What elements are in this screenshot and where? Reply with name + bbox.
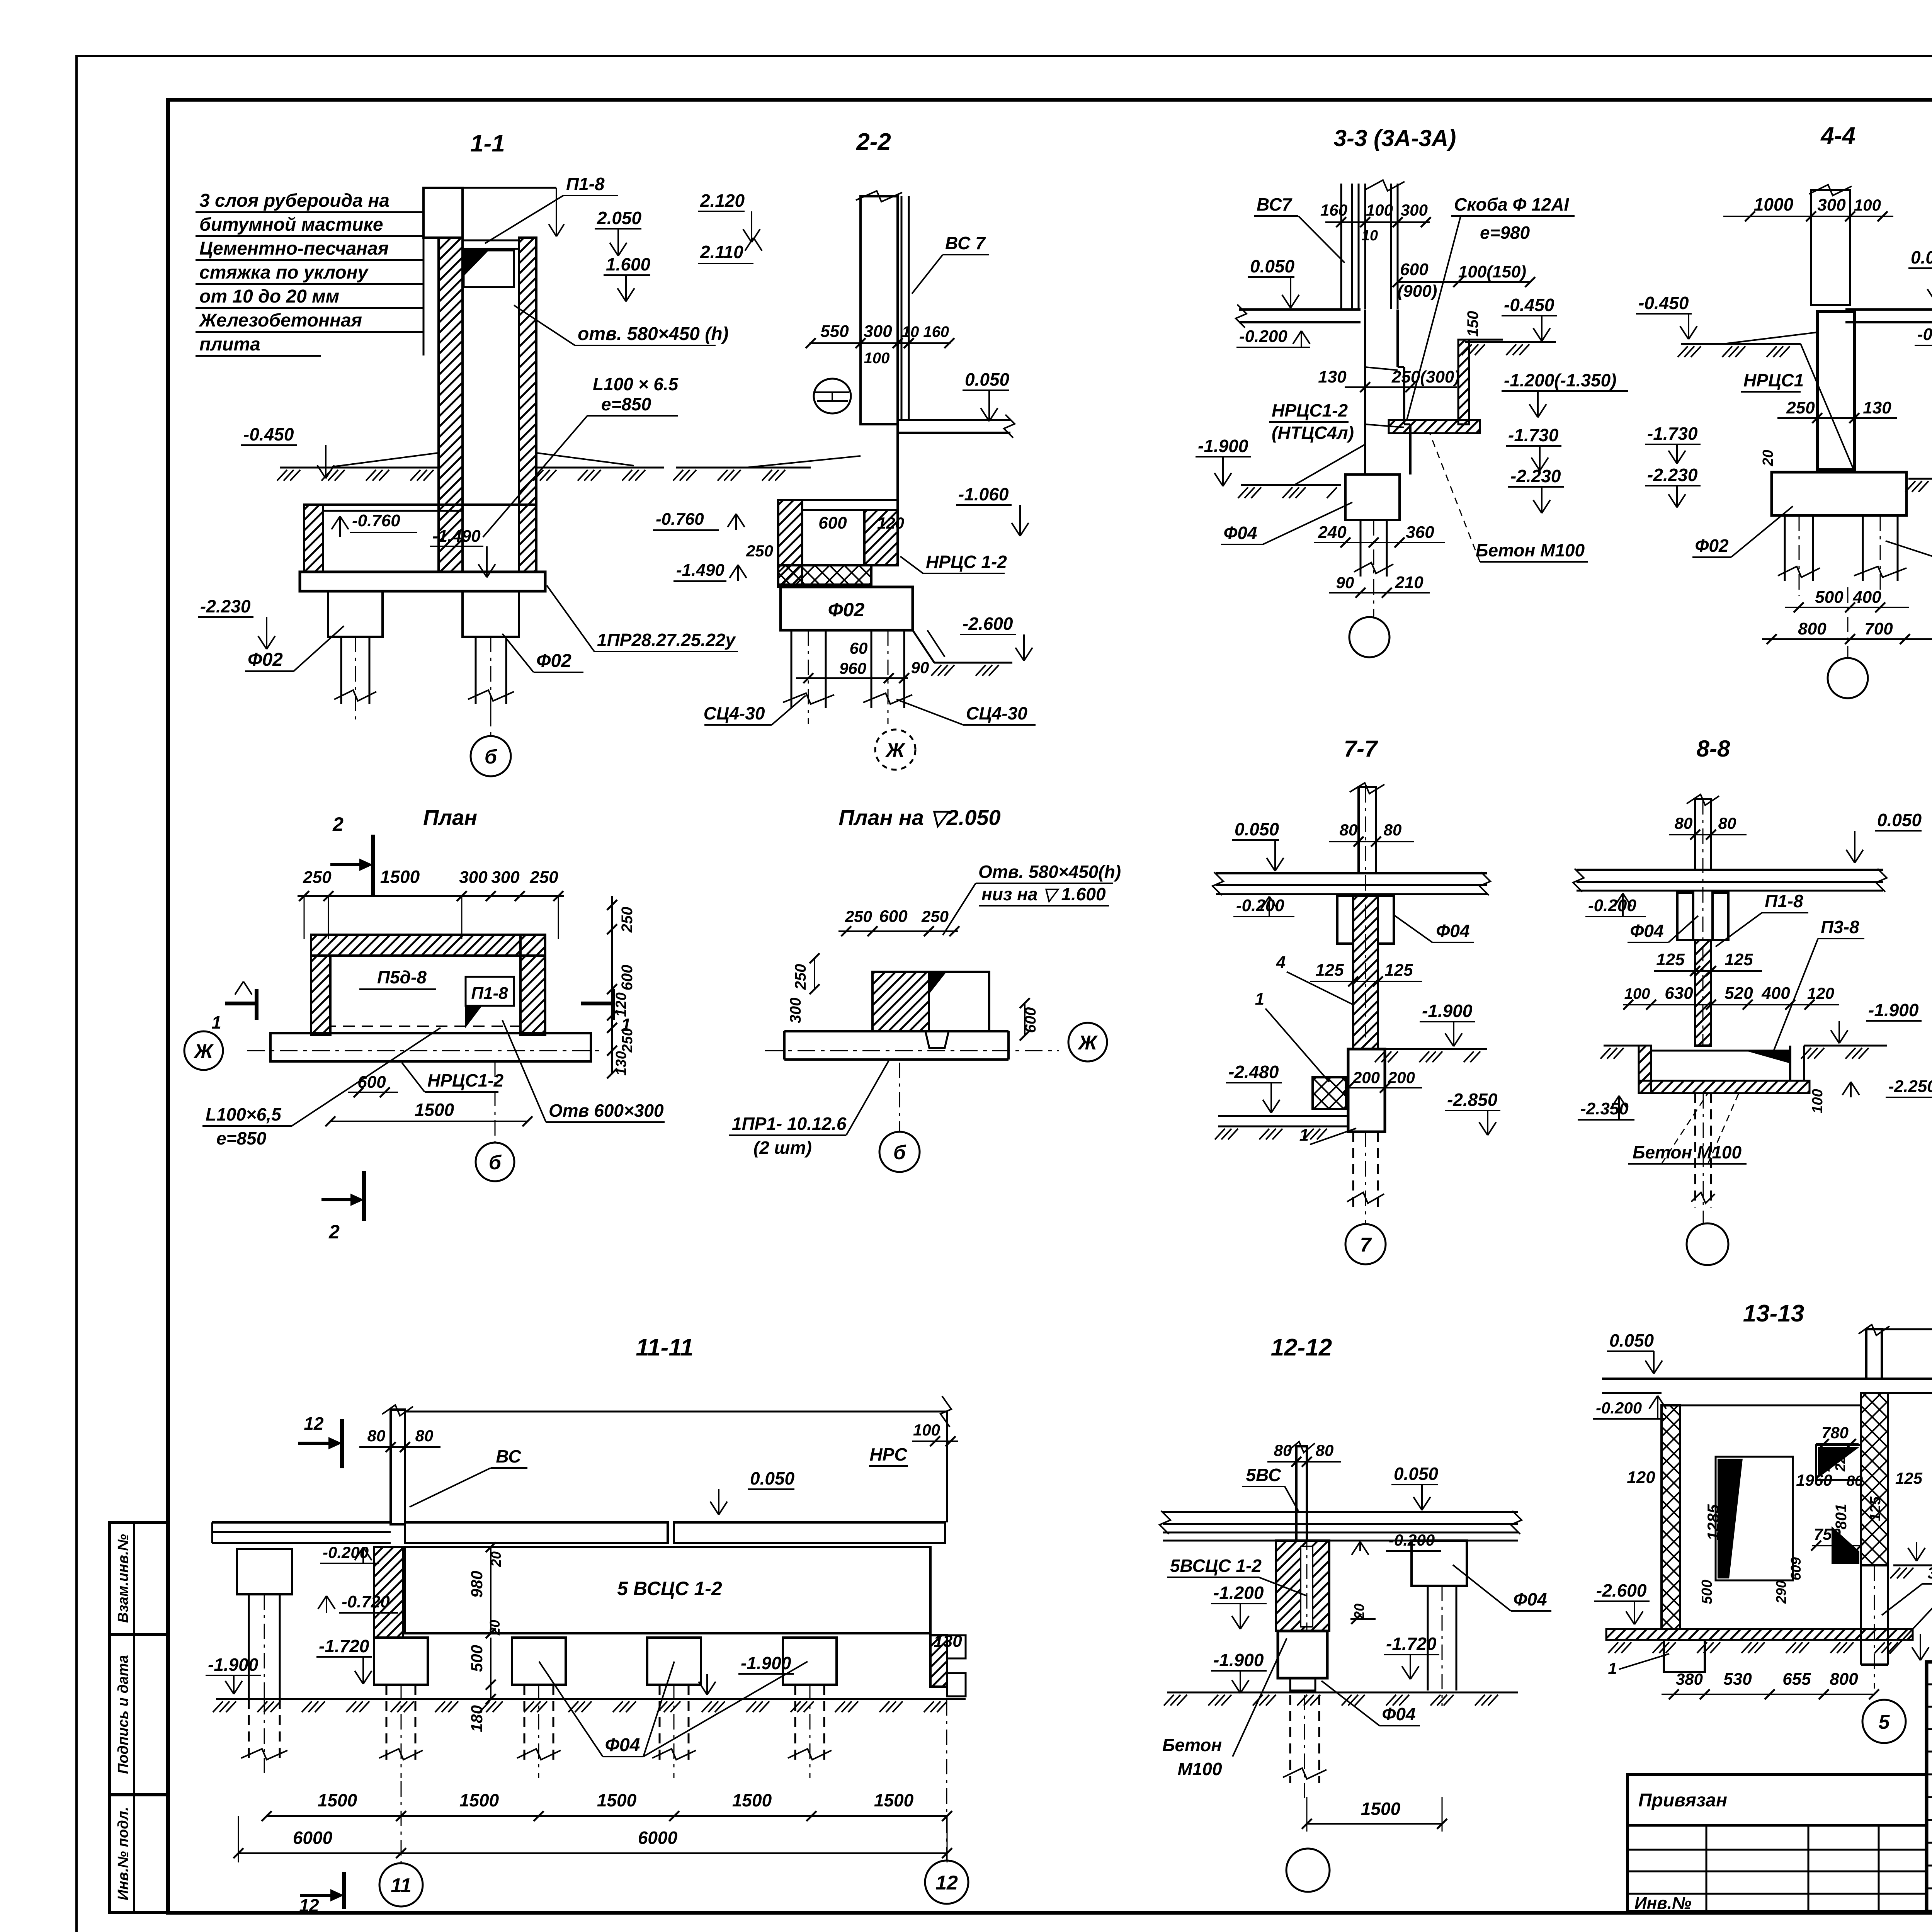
svg-text:100: 100 — [1854, 196, 1881, 214]
svg-text:0.050: 0.050 — [1609, 1330, 1654, 1350]
svg-text:Скоба Ф 12АI: Скоба Ф 12АI — [1454, 194, 1570, 214]
svg-text:250: 250 — [921, 907, 949, 925]
svg-text:битумной мастике: битумной мастике — [199, 214, 383, 235]
svg-text:5: 5 — [1879, 1711, 1890, 1733]
svg-text:0.050: 0.050 — [1250, 256, 1295, 276]
svg-text:90: 90 — [1336, 573, 1354, 592]
svg-text:550: 550 — [820, 322, 849, 341]
svg-text:750: 750 — [1814, 1525, 1841, 1543]
svg-text:отв. 580×450 (h): отв. 580×450 (h) — [578, 324, 729, 344]
svg-text:800: 800 — [1830, 1670, 1858, 1689]
svg-text:125: 125 — [1384, 961, 1413, 980]
svg-text:100: 100 — [864, 350, 890, 367]
svg-text:125: 125 — [1656, 950, 1685, 969]
svg-text:1ПР1- 10.12.6: 1ПР1- 10.12.6 — [732, 1114, 847, 1134]
svg-text:130: 130 — [1863, 398, 1891, 417]
svg-text:-2.230: -2.230 — [1510, 466, 1561, 486]
svg-text:800: 800 — [1798, 619, 1827, 638]
svg-text:11-11: 11-11 — [636, 1334, 693, 1361]
svg-text:120: 120 — [1807, 984, 1834, 1002]
svg-text:780: 780 — [1821, 1423, 1849, 1442]
svg-text:100(150): 100(150) — [1458, 262, 1526, 281]
svg-text:(900): (900) — [1398, 282, 1437, 301]
svg-text:Ж: Ж — [193, 1040, 214, 1063]
svg-text:Железобетонная: Железобетонная — [198, 310, 362, 331]
svg-text:Ф04: Ф04 — [1436, 921, 1469, 941]
svg-text:1500: 1500 — [380, 867, 420, 887]
svg-text:180: 180 — [468, 1705, 486, 1732]
svg-text:5 ВСЦС 1-2: 5 ВСЦС 1-2 — [617, 1578, 722, 1599]
svg-text:0.050: 0.050 — [750, 1468, 795, 1488]
svg-text:-2.230: -2.230 — [200, 596, 251, 616]
svg-text:Инв.№ подл.: Инв.№ подл. — [115, 1807, 131, 1900]
svg-text:П3-8: П3-8 — [1821, 917, 1859, 937]
svg-text:1: 1 — [1608, 1659, 1617, 1677]
svg-text:500: 500 — [468, 1645, 486, 1672]
svg-text:Подпись и дата: Подпись и дата — [115, 1655, 131, 1774]
svg-text:130: 130 — [613, 1051, 629, 1075]
svg-text:250: 250 — [1786, 398, 1815, 417]
svg-text:-1.490: -1.490 — [676, 561, 724, 580]
svg-text:80: 80 — [1340, 821, 1358, 839]
svg-text:1-1: 1-1 — [470, 130, 505, 157]
svg-text:250: 250 — [619, 1028, 636, 1053]
svg-text:3: 3 — [1927, 1564, 1932, 1582]
svg-text:1285: 1285 — [1704, 1504, 1722, 1541]
svg-text:ВС: ВС — [496, 1446, 521, 1466]
svg-text:6000: 6000 — [638, 1828, 678, 1848]
svg-text:б: б — [485, 746, 498, 768]
svg-text:250: 250 — [529, 868, 558, 887]
svg-text:700: 700 — [1864, 619, 1893, 638]
svg-text:-0.720: -0.720 — [342, 1592, 390, 1611]
svg-text:400: 400 — [1852, 588, 1881, 607]
svg-text:-0.200: -0.200 — [1917, 325, 1932, 344]
svg-text:Ф04: Ф04 — [605, 1735, 640, 1755]
svg-text:1960: 1960 — [1796, 1471, 1832, 1489]
svg-text:-1.720: -1.720 — [319, 1636, 369, 1656]
svg-text:СЦ4-30: СЦ4-30 — [704, 703, 765, 723]
svg-text:-1.200: -1.200 — [1213, 1583, 1264, 1603]
svg-text:0.050: 0.050 — [1235, 819, 1279, 839]
svg-text:2.110: 2.110 — [700, 242, 743, 262]
svg-text:П1-8: П1-8 — [566, 174, 605, 194]
svg-text:5ВС: 5ВС — [1246, 1465, 1282, 1485]
svg-text:План: План — [423, 805, 477, 830]
svg-text:Ф04: Ф04 — [1630, 921, 1663, 941]
svg-text:80: 80 — [1675, 814, 1693, 832]
svg-text:-2.480: -2.480 — [1228, 1062, 1279, 1082]
svg-text:0.050: 0.050 — [965, 369, 1010, 389]
svg-text:4-4: 4-4 — [1820, 122, 1855, 149]
svg-text:10 160: 10 160 — [902, 323, 949, 340]
svg-text:300: 300 — [1401, 201, 1428, 219]
svg-text:600: 600 — [619, 965, 636, 991]
svg-text:200: 200 — [1388, 1068, 1415, 1087]
svg-text:-2.250: -2.250 — [1888, 1077, 1932, 1096]
svg-text:240: 240 — [1318, 523, 1347, 542]
svg-text:Ф04: Ф04 — [1223, 523, 1257, 543]
svg-text:П5д-8: П5д-8 — [377, 967, 427, 987]
svg-text:200: 200 — [1352, 1068, 1380, 1087]
svg-text:11: 11 — [391, 1874, 412, 1897]
svg-text:1000: 1000 — [1754, 194, 1794, 214]
svg-text:1500: 1500 — [597, 1790, 637, 1810]
svg-text:250: 250 — [845, 907, 872, 925]
svg-text:-1.730: -1.730 — [1647, 423, 1698, 444]
svg-text:0.050: 0.050 — [1911, 247, 1932, 267]
svg-text:250: 250 — [303, 868, 332, 887]
svg-text:Отв. 580×450(h): Отв. 580×450(h) — [978, 862, 1121, 882]
svg-text:Ф02: Ф02 — [828, 599, 865, 621]
svg-text:-2.600: -2.600 — [1596, 1580, 1647, 1600]
svg-text:1500: 1500 — [415, 1100, 454, 1120]
svg-text:80: 80 — [1847, 1473, 1863, 1489]
svg-text:2: 2 — [328, 1221, 340, 1243]
svg-text:250(300): 250(300) — [1391, 367, 1460, 386]
svg-text:125: 125 — [1315, 961, 1344, 980]
svg-text:220: 220 — [1832, 1448, 1848, 1472]
svg-text:90: 90 — [911, 658, 929, 677]
svg-text:НРЦС1-2: НРЦС1-2 — [427, 1070, 504, 1090]
svg-text:530: 530 — [1723, 1670, 1752, 1689]
svg-text:плита: плита — [199, 334, 260, 355]
svg-text:П1-8: П1-8 — [471, 984, 508, 1003]
svg-text:Бетон: Бетон — [1162, 1735, 1222, 1755]
svg-text:Ж: Ж — [885, 739, 906, 762]
svg-text:М100: М100 — [1177, 1759, 1222, 1779]
svg-text:80: 80 — [1316, 1441, 1334, 1459]
svg-text:от 10 до 20 мм: от 10 до 20 мм — [199, 286, 339, 307]
svg-text:-0.450: -0.450 — [243, 424, 294, 444]
svg-text:-1.900: -1.900 — [208, 1655, 259, 1675]
svg-text:-0.450: -0.450 — [1638, 293, 1689, 313]
svg-text:20: 20 — [1760, 450, 1776, 466]
svg-text:10: 10 — [1362, 228, 1378, 244]
svg-text:e=980: e=980 — [1480, 223, 1530, 243]
svg-text:300: 300 — [459, 868, 488, 887]
svg-text:-2.350: -2.350 — [1580, 1099, 1629, 1118]
svg-text:-1.900: -1.900 — [741, 1653, 791, 1673]
svg-text:1500: 1500 — [1361, 1799, 1401, 1819]
svg-text:150: 150 — [1464, 311, 1481, 337]
svg-text:-1.490: -1.490 — [432, 527, 481, 546]
svg-text:125: 125 — [1867, 1496, 1884, 1521]
svg-text:160: 160 — [1320, 201, 1347, 219]
svg-text:1: 1 — [211, 1012, 221, 1032]
svg-text:80: 80 — [1384, 821, 1402, 839]
svg-text:0.050: 0.050 — [1877, 810, 1922, 830]
svg-text:-0.200: -0.200 — [323, 1543, 369, 1561]
svg-text:300: 300 — [864, 322, 892, 341]
svg-text:980: 980 — [468, 1571, 486, 1598]
svg-text:609: 609 — [1788, 1557, 1804, 1580]
svg-text:120: 120 — [1627, 1468, 1655, 1487]
svg-text:-0.200: -0.200 — [1596, 1399, 1642, 1417]
svg-text:630: 630 — [1665, 984, 1693, 1003]
svg-text:1500: 1500 — [459, 1790, 499, 1810]
svg-text:100: 100 — [913, 1421, 940, 1439]
svg-text:-1.900: -1.900 — [1868, 1000, 1919, 1020]
svg-text:-1.900: -1.900 — [1198, 436, 1248, 456]
svg-text:80: 80 — [1718, 814, 1736, 832]
svg-text:б: б — [489, 1151, 502, 1174]
svg-text:125: 125 — [1725, 950, 1753, 969]
svg-text:6000: 6000 — [293, 1828, 333, 1848]
svg-text:Ф04: Ф04 — [1382, 1704, 1415, 1724]
svg-text:-2.600: -2.600 — [963, 614, 1013, 634]
svg-text:1500: 1500 — [318, 1790, 357, 1810]
svg-text:120: 120 — [877, 514, 904, 532]
svg-text:400: 400 — [1761, 984, 1790, 1003]
svg-text:1.600: 1.600 — [606, 254, 651, 274]
svg-text:Бетон М100: Бетон М100 — [1633, 1142, 1742, 1162]
svg-text:(НТЦС4л): (НТЦС4л) — [1272, 423, 1354, 443]
svg-text:1: 1 — [1255, 990, 1264, 1009]
svg-text:250: 250 — [746, 542, 773, 560]
svg-text:-0.450: -0.450 — [1504, 295, 1554, 315]
svg-text:e=850: e=850 — [601, 394, 651, 414]
svg-text:4: 4 — [1276, 953, 1286, 972]
svg-text:20: 20 — [487, 1620, 503, 1636]
svg-text:СЦ4-30: СЦ4-30 — [966, 703, 1027, 723]
svg-text:250: 250 — [619, 907, 636, 933]
svg-text:НРС: НРС — [869, 1444, 907, 1464]
svg-text:1500: 1500 — [874, 1790, 914, 1810]
svg-text:Ф02: Ф02 — [1695, 536, 1728, 556]
svg-text:НРЦС1-2: НРЦС1-2 — [1272, 400, 1348, 420]
svg-text:80: 80 — [367, 1427, 386, 1445]
svg-text:План на ▽2.050: План на ▽2.050 — [838, 805, 1000, 830]
svg-text:Ф02: Ф02 — [248, 650, 283, 670]
svg-text:Ф02: Ф02 — [536, 651, 571, 671]
svg-text:Привязан: Привязан — [1638, 1790, 1727, 1811]
svg-text:250: 250 — [792, 964, 809, 990]
svg-text:L100 × 6.5: L100 × 6.5 — [593, 374, 679, 394]
svg-text:Бетон М100: Бетон М100 — [1476, 540, 1585, 560]
svg-text:Цементно-песчаная: Цементно-песчаная — [199, 238, 389, 259]
svg-text:125: 125 — [1895, 1469, 1923, 1487]
svg-text:7-7: 7-7 — [1344, 736, 1378, 762]
svg-text:e=850: e=850 — [216, 1128, 267, 1148]
svg-text:655: 655 — [1782, 1670, 1811, 1689]
svg-text:100: 100 — [1810, 1089, 1826, 1113]
svg-text:НРЦС1: НРЦС1 — [1743, 370, 1804, 390]
svg-text:низ на ▽ 1.600: низ на ▽ 1.600 — [981, 884, 1106, 904]
svg-text:-1.900: -1.900 — [1422, 1001, 1473, 1021]
svg-text:12-12: 12-12 — [1271, 1334, 1332, 1361]
svg-text:Взам.инв.№: Взам.инв.№ — [115, 1534, 131, 1623]
svg-text:100: 100 — [1624, 985, 1650, 1002]
svg-text:130: 130 — [1318, 367, 1347, 386]
svg-text:б: б — [893, 1141, 906, 1164]
svg-text:600: 600 — [1400, 260, 1429, 279]
svg-text:-0.760: -0.760 — [352, 511, 400, 530]
svg-text:3-3 (3А-3А): 3-3 (3А-3А) — [1334, 125, 1456, 151]
svg-text:Ж: Ж — [1077, 1032, 1098, 1054]
svg-text:-1.200(-1.350): -1.200(-1.350) — [1504, 370, 1617, 390]
svg-text:1ПР28.27.25.22у: 1ПР28.27.25.22у — [597, 630, 736, 650]
svg-text:1: 1 — [1299, 1126, 1309, 1145]
svg-text:-2.850: -2.850 — [1447, 1090, 1498, 1110]
svg-text:-0.200: -0.200 — [1588, 896, 1636, 915]
svg-text:П1-8: П1-8 — [1765, 891, 1803, 911]
svg-text:Отв 600×300: Отв 600×300 — [549, 1100, 664, 1121]
svg-text:-1.720: -1.720 — [1386, 1634, 1437, 1654]
svg-text:Инв.№: Инв.№ — [1634, 1894, 1691, 1913]
svg-text:80: 80 — [415, 1427, 434, 1445]
svg-text:290: 290 — [1773, 1580, 1789, 1604]
svg-text:960: 960 — [839, 659, 866, 677]
svg-text:ВС7: ВС7 — [1257, 194, 1293, 214]
svg-text:360: 360 — [1406, 523, 1434, 542]
svg-text:-0.200: -0.200 — [1236, 896, 1284, 915]
svg-text:100: 100 — [1366, 201, 1393, 219]
svg-text:L100×6,5: L100×6,5 — [206, 1104, 282, 1124]
svg-text:120: 120 — [613, 992, 629, 1017]
svg-text:300: 300 — [787, 998, 804, 1024]
svg-text:2.120: 2.120 — [700, 190, 745, 211]
svg-text:600: 600 — [879, 907, 908, 926]
svg-text:Ф04: Ф04 — [1513, 1589, 1547, 1609]
svg-text:12: 12 — [304, 1413, 324, 1434]
svg-text:300: 300 — [491, 868, 520, 887]
svg-text:-2.230: -2.230 — [1647, 465, 1698, 485]
svg-text:520: 520 — [1725, 984, 1753, 1003]
svg-text:500: 500 — [1699, 1580, 1715, 1604]
svg-text:600: 600 — [818, 514, 847, 532]
svg-text:300: 300 — [1817, 196, 1846, 214]
svg-text:80: 80 — [1274, 1441, 1292, 1459]
svg-text:(2 шт): (2 шт) — [753, 1138, 812, 1158]
svg-text:8-8: 8-8 — [1697, 736, 1730, 762]
svg-text:1500: 1500 — [732, 1790, 772, 1810]
svg-text:-1.060: -1.060 — [958, 484, 1009, 504]
svg-text:2-2: 2-2 — [856, 129, 891, 155]
svg-text:5ВСЦС 1-2: 5ВСЦС 1-2 — [1170, 1556, 1262, 1576]
svg-text:500: 500 — [1815, 588, 1844, 607]
svg-text:-0.760: -0.760 — [656, 510, 704, 529]
svg-text:13-13: 13-13 — [1743, 1300, 1804, 1327]
svg-text:7: 7 — [1360, 1234, 1372, 1256]
svg-text:-1.730: -1.730 — [1508, 425, 1559, 445]
svg-text:60: 60 — [850, 639, 868, 657]
svg-text:-1.900: -1.900 — [1213, 1650, 1264, 1670]
svg-text:стяжка по уклону: стяжка по уклону — [199, 262, 369, 283]
svg-text:3 слоя рубероида на: 3 слоя рубероида на — [199, 190, 389, 211]
svg-text:НРЦС 1-2: НРЦС 1-2 — [926, 552, 1007, 572]
svg-text:210: 210 — [1395, 573, 1423, 592]
svg-text:0.050: 0.050 — [1394, 1464, 1439, 1484]
svg-text:380: 380 — [1676, 1670, 1703, 1688]
svg-text:-0.200: -0.200 — [1239, 327, 1287, 346]
svg-text:12: 12 — [935, 1872, 958, 1894]
svg-text:ВС 7: ВС 7 — [945, 233, 986, 253]
svg-text:12: 12 — [299, 1895, 319, 1915]
svg-text:2.050: 2.050 — [597, 208, 642, 228]
svg-text:2: 2 — [332, 813, 344, 835]
